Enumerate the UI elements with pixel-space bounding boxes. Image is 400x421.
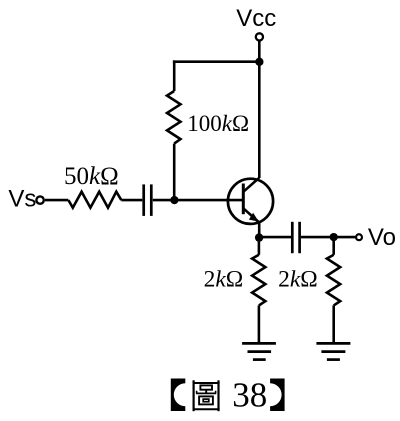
svg-text:50kΩ: 50kΩ: [64, 163, 119, 190]
svg-text:100kΩ: 100kΩ: [187, 111, 249, 136]
svg-text:Vcc: Vcc: [236, 5, 276, 32]
svg-text:Vs: Vs: [8, 186, 36, 213]
svg-text:38: 38: [232, 375, 267, 414]
svg-text:2kΩ: 2kΩ: [278, 266, 318, 292]
svg-text:Vo: Vo: [368, 224, 396, 251]
svg-text:2kΩ: 2kΩ: [204, 266, 244, 292]
